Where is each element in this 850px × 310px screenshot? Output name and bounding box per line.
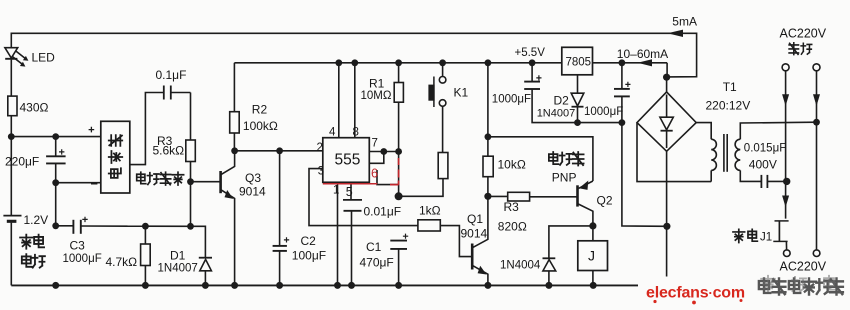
transistor Q2 (medium power PNP) <box>576 185 579 206</box>
wire: bottom ground rail <box>11 284 638 286</box>
resistor R1 10M <box>398 63 400 83</box>
relay J <box>592 226 594 241</box>
svg-text:4.7kΩ: 4.7kΩ <box>106 255 138 269</box>
svg-text:1.2V: 1.2V <box>24 213 49 227</box>
watermark 电路电器和猫 <box>759 279 843 295</box>
terminal: AC220V output left <box>784 250 791 257</box>
red annotation: 555 bottom edge <box>323 183 378 185</box>
svg-text:D2: D2 <box>554 94 570 108</box>
svg-text:9014: 9014 <box>461 227 488 241</box>
wire: node A horizontal (battery + rail to clock block) <box>11 136 101 138</box>
bridge rectifier <box>663 74 670 81</box>
svg-text:2: 2 <box>317 142 323 154</box>
block: digital clock 数字钟 <box>101 121 130 193</box>
wire: Q3 collector node to 555 pin2 <box>234 150 322 152</box>
svg-text:1000μF: 1000μF <box>492 94 531 106</box>
wire: top supply wire from LED to right side <box>11 33 696 77</box>
svg-text:1: 1 <box>333 185 339 197</box>
svg-text:+5.5V: +5.5V <box>515 47 546 59</box>
svg-text:100μF: 100μF <box>292 249 326 263</box>
svg-text:elecfans·com: elecfans·com <box>646 285 745 302</box>
svg-text:LED: LED <box>32 51 56 65</box>
resistor 1k <box>418 220 440 231</box>
transformer core <box>723 134 725 172</box>
svg-text:J: J <box>588 248 595 264</box>
svg-text:430Ω: 430Ω <box>20 101 49 115</box>
svg-text:R2: R2 <box>252 103 268 117</box>
resistor R3 820 <box>488 195 508 197</box>
capacitor 1000uF (input side) <box>531 63 533 81</box>
node: alarm output junction column <box>142 223 149 230</box>
resistor R2 100k <box>233 63 235 112</box>
battery 1.2V rechargeable <box>10 137 12 216</box>
capacitor 220uF <box>55 137 57 156</box>
resistor 430ohm <box>8 96 17 116</box>
svg-text:5mA: 5mA <box>672 15 697 29</box>
switch K1 pushbutton <box>442 63 444 77</box>
resistor R3 5.6k <box>190 93 192 141</box>
svg-text:AC220V: AC220V <box>780 260 827 274</box>
diode D2 1N4007 <box>577 75 579 93</box>
svg-text:0.015μF: 0.015μF <box>744 143 786 155</box>
capacitor C1 470uF <box>390 240 407 242</box>
svg-text:Q2: Q2 <box>597 194 613 208</box>
svg-text:C3: C3 <box>70 239 86 253</box>
capacitor 0.015uF 400V <box>760 175 762 188</box>
wire: 1k to Q1 base <box>440 226 472 257</box>
node: Q2 collector / relay junction <box>589 222 596 229</box>
op-amp/timer U1 555 box <box>323 138 370 183</box>
wire: bridge bottom vertical <box>666 151 668 276</box>
wire: 555 pin 5 lead <box>350 182 352 199</box>
capacitor 0.1uF <box>163 86 165 100</box>
svg-text:PNP: PNP <box>552 171 577 185</box>
svg-text:10–60mA: 10–60mA <box>617 47 668 61</box>
wire: +5.5V supply rail <box>234 62 561 64</box>
svg-text:1N4007: 1N4007 <box>537 108 576 120</box>
contact J1 normally closed <box>775 220 789 222</box>
wire: 555 pin 6 lead <box>377 170 399 185</box>
svg-text:K1: K1 <box>454 86 469 100</box>
svg-text:AC220V: AC220V <box>780 27 827 41</box>
transformer T1 primary coil <box>740 122 816 139</box>
resistor 10k <box>487 63 489 156</box>
svg-text:10kΩ: 10kΩ <box>498 158 526 172</box>
svg-text:8: 8 <box>353 127 359 139</box>
svg-text:7: 7 <box>372 138 378 150</box>
text 充电 <box>20 235 32 249</box>
svg-text:1kΩ: 1kΩ <box>419 204 441 218</box>
wire: DC minus link <box>578 122 622 124</box>
svg-text:Q3: Q3 <box>245 171 261 185</box>
svg-text:6: 6 <box>371 167 378 181</box>
svg-text:J1: J1 <box>760 232 772 244</box>
capacitor 0.01uF <box>343 199 362 201</box>
node: pin7/pin6/R1/C1 junction <box>395 192 403 200</box>
svg-text:1N4004: 1N4004 <box>500 260 541 272</box>
text 数字钟 (rotated, in block) <box>109 135 123 146</box>
svg-text:C2: C2 <box>301 234 317 248</box>
capacitor C2 100uF <box>279 151 281 245</box>
capacitor 1000uF (output side) <box>621 63 623 89</box>
svg-text:D1: D1 <box>170 249 186 263</box>
svg-text:R3: R3 <box>504 200 520 214</box>
svg-text:9014: 9014 <box>239 185 266 199</box>
text 输入 <box>789 43 798 55</box>
svg-text:400V: 400V <box>749 158 777 172</box>
wire: clock block minus lead <box>56 182 101 184</box>
wire: base feed to Q3 <box>191 181 221 183</box>
wire: emitter feed to Q2 <box>488 137 593 181</box>
svg-text:C1: C1 <box>366 240 382 254</box>
transistor Q3 9014 <box>219 171 222 193</box>
terminal: AC220V input right <box>813 64 820 71</box>
text 闹钟输出 <box>137 172 146 184</box>
svg-text:7805: 7805 <box>566 57 592 69</box>
svg-text:1000μF: 1000μF <box>584 106 623 118</box>
svg-text:R1: R1 <box>369 77 385 91</box>
svg-text:5: 5 <box>346 185 353 199</box>
text 常闭 <box>733 229 745 242</box>
wire: bridge left vertex to transformer secondary bottom <box>637 123 711 182</box>
regulator U2 7805 <box>562 47 593 75</box>
svg-text:1000μF: 1000μF <box>63 253 102 265</box>
svg-text:220:12V: 220:12V <box>706 99 751 113</box>
svg-text:5.6kΩ: 5.6kΩ <box>153 144 185 158</box>
wire: 555 pin 1 ground lead <box>337 182 339 285</box>
wire: 555 pin 8 lead <box>354 63 356 138</box>
diode 1N4004 <box>549 226 593 258</box>
LED D (diode symbol with emission arrows) <box>5 48 18 58</box>
transistor Q1 9014 <box>471 244 474 270</box>
transformer T1 secondary coil <box>696 123 711 140</box>
resistor (below K1, unlabeled) <box>438 153 448 179</box>
svg-text:3: 3 <box>318 165 324 177</box>
svg-text:4: 4 <box>329 127 336 139</box>
logo elecfans.com <box>646 285 745 305</box>
text 中功率 <box>549 152 559 164</box>
svg-text:Q1: Q1 <box>467 212 483 226</box>
svg-text:T1: T1 <box>723 80 737 94</box>
svg-text:470μF: 470μF <box>360 256 394 270</box>
resistor 4.7k <box>144 226 146 244</box>
svg-text:0.1μF: 0.1μF <box>156 68 187 82</box>
svg-text:100kΩ: 100kΩ <box>243 119 278 133</box>
10-60mA current arrow <box>638 59 653 66</box>
wire: alarm output coupling path <box>130 93 164 165</box>
wire: 555 pin 7 lead <box>369 151 398 153</box>
terminal: AC220V input left <box>782 64 789 71</box>
wire: 555 pin 4 lead <box>338 63 340 138</box>
wire: negative return to bridge <box>622 123 667 227</box>
svg-text:1N4007: 1N4007 <box>158 263 198 275</box>
svg-text:10MΩ: 10MΩ <box>361 90 392 102</box>
svg-text:555: 555 <box>335 152 361 169</box>
terminal: AC220V output right <box>813 250 820 257</box>
text 电池 <box>22 254 32 267</box>
diode D1 1N4007 <box>199 257 212 259</box>
svg-text:820Ω: 820Ω <box>498 220 527 234</box>
capacitor C3 1000uF <box>56 225 73 227</box>
wire: 555 pin 3 output run <box>309 169 418 226</box>
red annotation: pin6 column dashes <box>390 158 399 185</box>
svg-text:0.01μF: 0.01μF <box>364 205 402 219</box>
svg-text:220μF: 220μF <box>5 155 39 169</box>
5mA current arrow on top wire <box>668 30 684 37</box>
